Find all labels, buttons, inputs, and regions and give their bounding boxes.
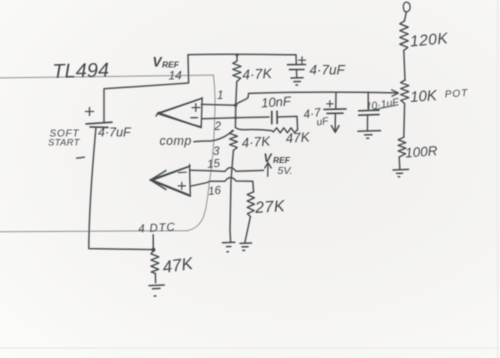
wire pin2 to 10nF — [202, 117, 269, 119]
svg-text:10nF: 10nF — [261, 93, 293, 110]
node DTC junction — [151, 248, 155, 252]
wire comp to pin3 node — [194, 130, 233, 141]
ground under 27K — [240, 243, 252, 250]
value label 10K POT (R7) — [410, 87, 469, 106]
resistor R2 47K (horizontal) — [272, 128, 298, 133]
svg-text:16: 16 — [208, 185, 223, 198]
svg-text:V: V — [153, 55, 163, 70]
ground under C2 — [291, 78, 303, 85]
svg-text:47K: 47K — [285, 129, 311, 146]
terminal loop (output sense) — [403, 2, 410, 12]
svg-text:4·7uF: 4·7uF — [98, 126, 132, 140]
svg-text:START: START — [48, 138, 81, 149]
svg-text:V: V — [264, 151, 273, 165]
capacitor C3 10nF — [272, 111, 277, 123]
wire pin1 node to pot wiper — [236, 92, 398, 104]
resistor R3 4.7K (node to ground chain) — [230, 131, 238, 151]
chip outline TL494 (faint) — [0, 75, 215, 232]
capacitor C2 4.7uF (VREF rail) — [288, 55, 306, 78]
capacitor C1 soft-start 4.7uF — [86, 108, 113, 128]
op-amp U2 error amp 2 — [150, 165, 191, 197]
wire 10nF to 47K corner — [277, 116, 297, 129]
wire 120K to pot — [404, 50, 405, 80]
resistor R8 100R — [398, 137, 406, 157]
svg-text:120K: 120K — [409, 30, 449, 50]
svg-text:3: 3 — [213, 146, 220, 158]
wire pin16 to 27K — [190, 178, 253, 192]
wire pot to 100R — [403, 104, 406, 138]
label SOFT START — [48, 129, 81, 149]
node pin1 junction — [234, 104, 237, 107]
wiper arrowhead — [392, 90, 399, 96]
svg-text:4·7K: 4·7K — [241, 133, 271, 150]
wire 47K to comp node — [235, 127, 271, 130]
resistor R7 10K pot — [401, 80, 409, 104]
node pin2 crossing — [234, 116, 237, 119]
ground under R3 chain — [223, 242, 235, 252]
ground under 100R — [393, 169, 409, 176]
svg-text:5V.: 5V. — [278, 165, 293, 177]
value label 4.7uF (C4) — [302, 105, 329, 128]
ground under C5 — [358, 131, 381, 139]
svg-text:10K: 10K — [410, 87, 439, 106]
svg-text:2: 2 — [214, 121, 222, 133]
svg-text:15: 15 — [207, 158, 222, 171]
svg-text:TL494: TL494 — [52, 60, 109, 83]
wire pin15 to VREF — [190, 168, 264, 172]
ground arrow under C4 — [331, 126, 339, 133]
svg-text:4·7uF: 4·7uF — [310, 63, 346, 78]
svg-text:comp: comp — [160, 134, 192, 148]
wire R3 down to ground — [230, 150, 233, 242]
capacitor C4 4.7uF (on pot wire) — [324, 92, 346, 126]
wire 27K to ground — [245, 217, 250, 242]
op-amp U1 error amp 1 — [156, 98, 202, 128]
wire DTC stub — [152, 235, 154, 250]
svg-text:27K: 27K — [254, 198, 287, 217]
svg-text:100R: 100R — [405, 143, 438, 160]
ground under R5 — [149, 285, 164, 296]
svg-text:REF: REF — [273, 155, 291, 165]
wire R5 to ground — [154, 273, 156, 282]
wire pin14 drop — [104, 55, 189, 123]
label VREF 5V — [264, 151, 293, 177]
wire loop to 120K — [404, 12, 406, 21]
resistor R6 120K — [400, 21, 408, 50]
wire main vertical pin1-pin2-node — [235, 82, 236, 128]
svg-text:4·7K: 4·7K — [242, 65, 273, 83]
resistor R4 27K — [247, 192, 254, 217]
resistor R5 47K (DTC to ground) — [151, 251, 159, 274]
wire 100R to ground — [398, 157, 401, 169]
capacitor C5 0.1uF — [359, 92, 379, 130]
wire VREF top rail — [188, 53, 296, 56]
svg-text:14: 14 — [169, 69, 183, 83]
wire C1 to DTC node — [89, 127, 153, 249]
svg-text:1: 1 — [217, 90, 223, 102]
arrow to VREF 5V — [265, 163, 271, 177]
node R1 top junction — [236, 53, 239, 56]
resistor R1 4.7K (VREF to pin1) — [233, 55, 241, 82]
stray pencil dash — [77, 157, 85, 158]
wire pin1 — [201, 103, 235, 106]
svg-text:4 DTC: 4 DTC — [138, 222, 176, 236]
svg-text:POT: POT — [444, 88, 468, 101]
label VREF pin14 — [153, 55, 183, 83]
